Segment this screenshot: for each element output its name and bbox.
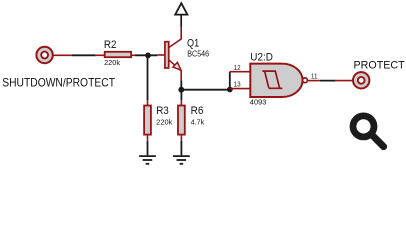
magnifier icon xyxy=(353,116,384,147)
svg-text:BC546: BC546 xyxy=(187,49,209,58)
pin 11 stub xyxy=(308,80,320,82)
svg-text:4.7k: 4.7k xyxy=(191,117,205,126)
wire up to pin 12 xyxy=(229,72,231,90)
pin stub R6 bottom xyxy=(180,135,182,141)
pin stub of output pad xyxy=(336,80,353,82)
pin 12 stub xyxy=(230,71,251,73)
svg-text:12: 12 xyxy=(234,63,241,72)
wire pin 11 to pad xyxy=(320,80,336,82)
schmitt hysteresis symbol xyxy=(262,71,282,88)
ground left xyxy=(139,156,156,164)
wire emitter to gate inputs xyxy=(181,89,230,91)
svg-text:U2:D: U2:D xyxy=(250,51,273,63)
svg-text:220k: 220k xyxy=(104,58,120,67)
wire R2 to base xyxy=(135,54,157,56)
pin stub R3 top xyxy=(147,100,149,105)
pin stub of pad xyxy=(53,54,72,56)
wire pad to R2 xyxy=(72,54,96,56)
resistor R3 xyxy=(144,106,151,135)
svg-text:4093: 4093 xyxy=(250,98,267,107)
svg-text:11: 11 xyxy=(311,71,318,80)
emitter pin xyxy=(169,60,182,81)
pin stub Q1 base xyxy=(157,54,164,56)
output bubble xyxy=(303,78,308,83)
power arrow terminal xyxy=(175,3,187,14)
terminal pad SHUTDOWN/PROTECT xyxy=(36,47,52,63)
nand gate U2:D xyxy=(250,64,307,97)
terminal pad PROTECT xyxy=(353,72,369,88)
svg-text:Q1: Q1 xyxy=(187,37,199,49)
collector pin xyxy=(169,28,182,48)
emitter wire down xyxy=(180,80,182,92)
svg-text:SHUTDOWN/PROTECT: SHUTDOWN/PROTECT xyxy=(2,75,115,89)
svg-text:R3: R3 xyxy=(156,105,169,117)
wire collector to arrow terminal xyxy=(180,15,182,28)
junction node gate input xyxy=(227,87,233,93)
junction node emitter xyxy=(178,87,184,93)
pin stub R3 bottom xyxy=(147,135,149,141)
svg-text:13: 13 xyxy=(234,80,241,89)
pin stub R6 top xyxy=(180,100,182,105)
svg-text:R2: R2 xyxy=(104,39,117,51)
resistor R6 xyxy=(178,106,185,135)
wire R6 top xyxy=(180,92,182,100)
wire R6 to ground xyxy=(180,141,182,156)
svg-text:220k: 220k xyxy=(156,117,172,126)
pin stub R2 left xyxy=(96,54,105,56)
wire R3 to ground xyxy=(147,141,149,156)
emitter arrow xyxy=(173,62,181,70)
svg-text:PROTECT: PROTECT xyxy=(354,59,405,71)
wire junction down to R3 xyxy=(147,57,149,100)
resistor R2 xyxy=(105,52,131,57)
svg-text:R6: R6 xyxy=(191,105,204,117)
pin 13 stub xyxy=(230,88,251,90)
pin stub R2 right xyxy=(131,54,135,56)
junction node base/R3 xyxy=(145,53,151,59)
ground right xyxy=(173,156,190,164)
transistor Q1 xyxy=(165,28,181,81)
